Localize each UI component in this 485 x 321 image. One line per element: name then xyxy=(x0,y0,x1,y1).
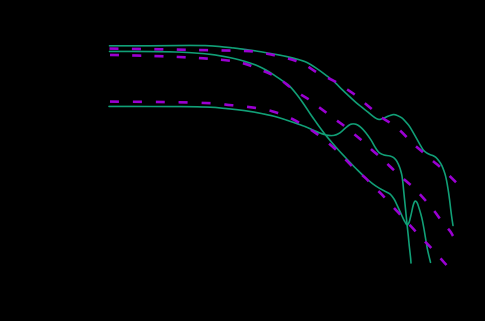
purple dashed curve 2 (middle pair) xyxy=(110,55,453,236)
purple dashed curve 1 (top pair) xyxy=(110,49,457,183)
purple dashed curve 3 (bottom-left pair) xyxy=(110,102,447,265)
green solid curve 1 (top pair) xyxy=(110,45,454,225)
green solid curve 3 (bottom-left pair) xyxy=(109,106,411,263)
green solid curve 2 (middle pair) xyxy=(110,51,431,262)
